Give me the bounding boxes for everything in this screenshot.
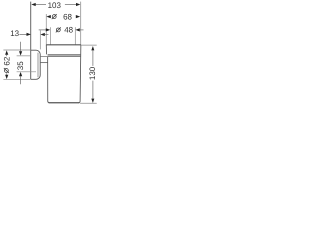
ring top edge xyxy=(48,53,81,55)
extension line 35 top xyxy=(17,55,31,57)
dimension 130 stub bottom xyxy=(92,81,94,99)
extension line o48 right xyxy=(74,27,76,44)
wall plate inner line xyxy=(37,53,39,78)
extension line 35 bottom xyxy=(17,71,36,73)
extension line o62 bottom xyxy=(3,78,30,80)
dimension 35 upper tail xyxy=(20,42,22,52)
glass rim xyxy=(46,44,81,46)
dimension 103 line xyxy=(35,4,77,6)
diameter symbol o68 xyxy=(52,14,57,19)
extension line 13 right xyxy=(39,30,41,49)
svg-text:35: 35 xyxy=(16,61,25,70)
extension line o48 left xyxy=(49,27,51,44)
glass front xyxy=(79,45,81,103)
dimension 130 top arrow xyxy=(91,46,94,50)
dimension 103 right arrow xyxy=(76,3,80,6)
dimension o68 left arrow xyxy=(46,15,50,18)
dimension o62 bottom arrow xyxy=(5,75,8,79)
dimension o48 tail left xyxy=(39,29,46,31)
glass back lower xyxy=(48,57,50,103)
glass back upper xyxy=(45,45,47,55)
svg-text:62: 62 xyxy=(2,56,11,65)
extension line 130 top (rim extended) xyxy=(81,44,97,46)
ring band fill xyxy=(48,55,81,57)
svg-text:103: 103 xyxy=(48,1,62,10)
dimension o48 left arrow xyxy=(46,28,50,31)
diameter symbol o48 xyxy=(56,27,61,32)
dimension 130 bottom arrow xyxy=(91,99,94,103)
ring bottom edge / arm top xyxy=(40,56,80,58)
dimension 130 stub top xyxy=(92,50,94,66)
arm bottom edge xyxy=(40,62,47,64)
extension line right (103 / o68) xyxy=(80,2,82,45)
glass bottom xyxy=(49,102,80,104)
svg-text:130: 130 xyxy=(88,66,97,80)
svg-text:48: 48 xyxy=(64,26,73,35)
dimension o68 right arrow xyxy=(76,15,80,18)
wall line xyxy=(30,2,32,80)
extension line o62 top xyxy=(3,49,30,51)
dimension 13 line xyxy=(19,33,27,35)
dimension o62 stubs xyxy=(6,55,8,57)
dimension 13 tail right xyxy=(45,34,49,36)
dimension 13 right arrow xyxy=(40,33,44,36)
dimension o48 right arrow xyxy=(75,28,79,31)
dimension 103 left arrow xyxy=(31,3,35,6)
extension line 130 bottom xyxy=(80,102,97,104)
svg-text:68: 68 xyxy=(63,12,72,21)
dimension 35 lower tail xyxy=(20,76,22,84)
dimension o48 tail right xyxy=(80,29,84,31)
svg-text:13: 13 xyxy=(10,29,19,38)
dimension 13 left arrow xyxy=(27,33,31,36)
dimension 35 top arrow xyxy=(19,51,22,55)
dimension 35 bottom arrow xyxy=(19,72,22,76)
diameter symbol o62 (rotated) xyxy=(4,68,9,73)
extension line left o68 xyxy=(45,14,47,45)
wall plate outer xyxy=(31,50,40,79)
dimension o62 top arrow xyxy=(5,50,8,54)
